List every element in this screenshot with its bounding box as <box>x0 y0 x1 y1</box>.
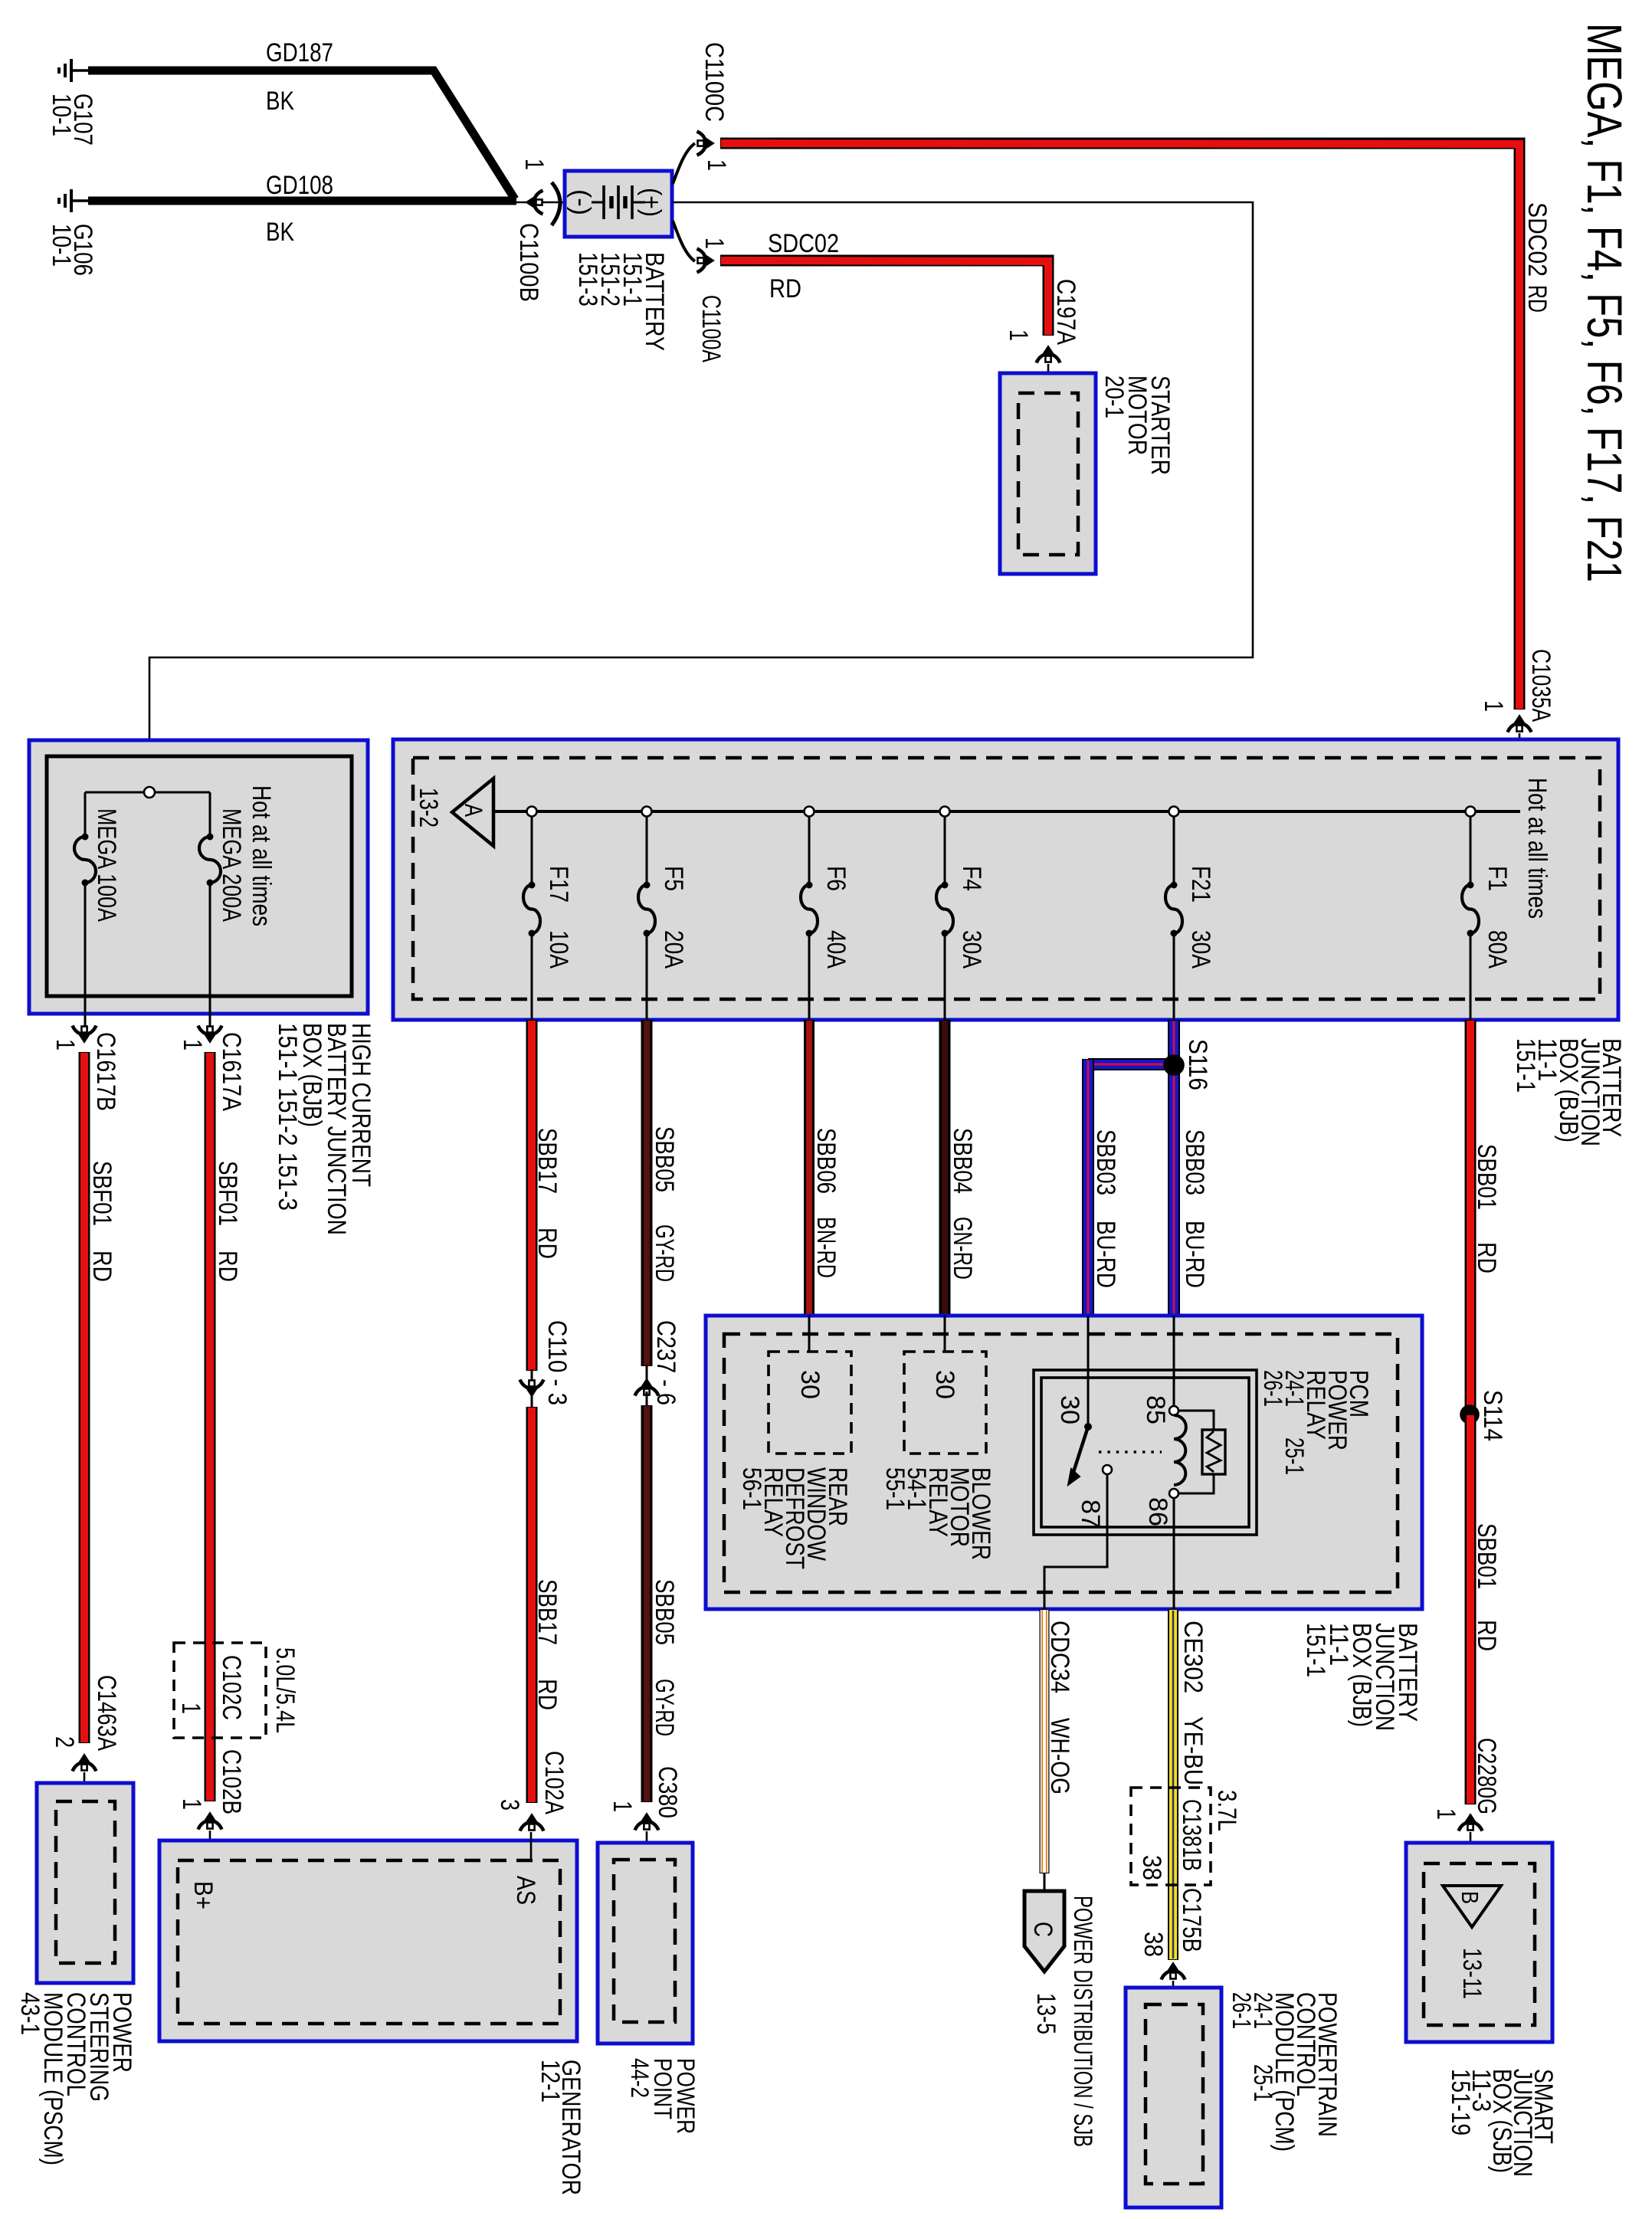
svg-text:BU-RD: BU-RD <box>1091 1221 1120 1288</box>
svg-text:30: 30 <box>1055 1395 1084 1424</box>
svg-text:GY-RD: GY-RD <box>650 1224 679 1282</box>
svg-text:10-1: 10-1 <box>47 93 76 136</box>
svg-text:26-1: 26-1 <box>1227 1992 1256 2029</box>
svg-text:C102B: C102B <box>217 1749 246 1814</box>
svg-text:GY-RD: GY-RD <box>650 1679 679 1736</box>
PCM power relay outer box <box>1034 1370 1257 1535</box>
svg-text:1: 1 <box>520 159 549 170</box>
wire SBB05 GY-RD lower <box>641 1405 653 1802</box>
wire SBF01 RD right <box>205 1052 216 1801</box>
junction circle <box>144 787 155 798</box>
high current BJB box <box>29 740 368 1014</box>
svg-text:1: 1 <box>1479 700 1508 712</box>
svg-text:BN-RD: BN-RD <box>811 1217 841 1278</box>
svg-text:C2280G: C2280G <box>1472 1738 1501 1814</box>
svg-text:55-1: 55-1 <box>880 1467 910 1510</box>
relay pin 87 <box>1103 1465 1112 1474</box>
wire SBB17 RD upper <box>526 1020 538 1371</box>
svg-text:F6: F6 <box>821 866 851 891</box>
svg-text:151-1: 151-1 <box>1511 1038 1540 1093</box>
svg-text:F5: F5 <box>659 866 688 891</box>
wire F1 tap <box>1470 811 1472 885</box>
wire SDC02 RD top <box>720 143 1519 710</box>
svg-text:CE302: CE302 <box>1178 1621 1208 1693</box>
connector C380 arrow <box>635 1813 659 1831</box>
connector C1463A arrow <box>73 1754 97 1772</box>
bracket at battery left <box>552 182 560 225</box>
svg-text:BU-RD: BU-RD <box>1180 1221 1209 1288</box>
fuse F5 <box>638 885 655 933</box>
fuse F6 <box>801 885 818 933</box>
bus tap circle F4 <box>940 807 950 817</box>
svg-text:SBB05: SBB05 <box>650 1579 679 1645</box>
svg-text:1: 1 <box>1004 329 1033 341</box>
connector C1617A arrow <box>198 1026 222 1044</box>
svg-text:RD: RD <box>533 1679 562 1710</box>
wire SBB03 BU-RD branch <box>1088 1058 1174 1070</box>
svg-text:S116: S116 <box>1183 1039 1212 1090</box>
wire C197A into starter <box>1047 364 1050 395</box>
wire SBB06 BN-RD <box>804 1020 815 1316</box>
svg-text:F4: F4 <box>957 866 986 891</box>
wire C237-6 stub lower <box>646 1391 648 1406</box>
wire into connector C <box>1044 1873 1046 1891</box>
wire 86 to box bottom <box>1173 1498 1175 1609</box>
fuse MEGA 200A <box>199 837 221 883</box>
battery split brackets <box>673 143 695 184</box>
svg-text:C1617A: C1617A <box>217 1032 246 1111</box>
svg-text:A: A <box>460 804 487 818</box>
wire F6 tap <box>808 811 811 885</box>
svg-text:F1: F1 <box>1483 866 1512 891</box>
junction S116 <box>1165 1056 1184 1075</box>
svg-text:B: B <box>1457 1891 1483 1904</box>
svg-text:GD108: GD108 <box>266 171 333 200</box>
svg-text:(-): (-) <box>566 189 595 215</box>
svg-text:RD: RD <box>213 1250 242 1282</box>
wire SBB17 RD lower <box>526 1407 538 1803</box>
connector C237-6 arrow <box>635 1378 659 1396</box>
wire F17 to box edge <box>531 933 533 1020</box>
connector square 30 blower <box>904 1352 986 1454</box>
wire left MEGA branch <box>84 792 87 837</box>
svg-text:MEGA 200A: MEGA 200A <box>217 808 246 922</box>
wire C110-3 stub upper <box>531 1369 533 1384</box>
battery junction box (BJB) <box>393 739 1618 1020</box>
svg-text:10A: 10A <box>544 930 573 969</box>
wire F21 tap <box>1173 811 1175 885</box>
wire C380 into power point <box>646 1831 648 1860</box>
connector C102B arrow <box>198 1812 222 1830</box>
svg-text:C197A: C197A <box>1051 279 1080 345</box>
relay pin 85 node <box>1169 1406 1178 1415</box>
wire SDC02 RD to starter <box>720 261 1048 336</box>
wire F4 tap <box>944 811 946 885</box>
svg-text:30A: 30A <box>957 930 986 969</box>
svg-text:30A: 30A <box>1186 930 1215 969</box>
svg-text:1: 1 <box>176 1703 205 1714</box>
fuse MEGA 100A <box>74 837 96 883</box>
svg-text:5.0L/5.4L: 5.0L/5.4L <box>270 1647 300 1733</box>
connector C197A arrow <box>1037 346 1060 363</box>
svg-text:85: 85 <box>1141 1395 1170 1424</box>
generator box <box>159 1840 577 2041</box>
svg-text:MEGA, F1, F4, F5, F6, F17, F21: MEGA, F1, F4, F5, F6, F17, F21 <box>1577 23 1632 582</box>
svg-text:SBB01: SBB01 <box>1472 1523 1501 1589</box>
svg-text:F17: F17 <box>544 866 573 903</box>
wire battery to BJB feed <box>149 202 1253 788</box>
smart junction box <box>1406 1843 1552 2042</box>
svg-text:87: 87 <box>1076 1500 1105 1529</box>
wire into defrost relay <box>808 1316 811 1352</box>
svg-text:SBB03: SBB03 <box>1180 1129 1209 1195</box>
svg-text:GN-RD: GN-RD <box>948 1217 977 1280</box>
svg-text:44-2: 44-2 <box>626 2058 654 2098</box>
svg-text:SBB17: SBB17 <box>533 1579 562 1645</box>
relay switch blade <box>1073 1427 1088 1472</box>
wire SBB03 to switch 30 <box>1087 1316 1090 1425</box>
svg-text:B+: B+ <box>188 1881 218 1909</box>
svg-text:C1463A: C1463A <box>92 1675 121 1751</box>
wire C1463A into PSCM <box>84 1772 86 1801</box>
battery box <box>565 171 672 237</box>
svg-text:3: 3 <box>495 1799 524 1811</box>
svg-text:40A: 40A <box>821 930 851 969</box>
svg-text:SBB06: SBB06 <box>811 1128 841 1194</box>
wire SBB05 GY-RD upper <box>641 1020 653 1366</box>
connector C2280G arrow <box>1459 1814 1483 1831</box>
svg-text:C: C <box>1028 1922 1057 1937</box>
svg-text:RD: RD <box>533 1227 562 1259</box>
fuse F1 <box>1462 885 1479 933</box>
wire GD108 BK thick <box>88 197 516 205</box>
svg-text:YE-BU: YE-BU <box>1178 1716 1208 1785</box>
wire F1 to box edge <box>1470 933 1472 1020</box>
svg-text:F21: F21 <box>1186 866 1215 903</box>
starter motor box <box>1000 373 1096 574</box>
svg-text:POWER DISTRIBUTION / SJB: POWER DISTRIBUTION / SJB <box>1068 1896 1097 2147</box>
svg-text:MEGA 100A: MEGA 100A <box>92 808 121 922</box>
ground G106 <box>59 189 88 212</box>
connector C1100C arrow <box>697 132 715 156</box>
connector C175B arrow <box>1162 1962 1185 1980</box>
svg-text:1: 1 <box>1431 1808 1460 1820</box>
svg-text:25-1: 25-1 <box>1248 2064 1277 2102</box>
svg-text:C102A: C102A <box>539 1751 569 1814</box>
svg-text:2: 2 <box>50 1736 79 1748</box>
wire C2280G into SJB <box>1470 1832 1472 1886</box>
high current BJB inner box <box>47 756 352 996</box>
wire C175B into PCM <box>1172 1981 1175 2004</box>
svg-text:38: 38 <box>1139 1932 1168 1957</box>
svg-text:C1035A: C1035A <box>1526 649 1555 722</box>
svg-text:56-1: 56-1 <box>737 1467 766 1510</box>
connector C110-3 arrow <box>520 1380 544 1398</box>
svg-text:C1100C: C1100C <box>700 42 729 122</box>
wire C110-3 stub lower <box>531 1395 533 1407</box>
bus tap circle F1 <box>1466 807 1476 817</box>
PCM box <box>1126 1988 1221 2208</box>
svg-text:13-5: 13-5 <box>1031 1993 1060 2034</box>
svg-text:(+): (+) <box>637 188 666 217</box>
svg-text:25-1: 25-1 <box>1280 1437 1309 1475</box>
svg-text:13-11: 13-11 <box>1457 1948 1486 1999</box>
svg-text:C1100B: C1100B <box>514 223 543 302</box>
svg-text:1: 1 <box>700 238 729 249</box>
svg-text:C237 - 6: C237 - 6 <box>651 1320 680 1405</box>
wire SBB01 RD lower <box>1465 1414 1477 1804</box>
svg-text:C380: C380 <box>653 1766 682 1818</box>
wire SBB03 BU-RD main <box>1168 1020 1180 1316</box>
ground G107 <box>59 59 88 82</box>
connector C1100B arrow <box>526 191 543 215</box>
svg-text:151-19: 151-19 <box>1446 2069 1475 2135</box>
wire CDC34 WH-OG <box>1040 1609 1050 1873</box>
svg-text:Hot at all times: Hot at all times <box>247 785 276 926</box>
svg-text:C1100A: C1100A <box>697 295 726 362</box>
fuse F17 <box>523 885 540 933</box>
svg-text:SBB01: SBB01 <box>1472 1144 1501 1210</box>
svg-text:38: 38 <box>1137 1855 1166 1880</box>
wire SBB03 BU-RD branch vertical <box>1082 1059 1094 1316</box>
wire GD187 BK thick <box>88 70 515 199</box>
off-page connector C <box>1024 1891 1064 1972</box>
wire below MEGA 100A <box>84 883 87 1027</box>
wire C1035A into BJB <box>1519 733 1521 811</box>
relay actuation dotted line <box>1099 1450 1162 1453</box>
wire F5 to box edge <box>646 933 648 1020</box>
svg-text:C175B: C175B <box>1177 1888 1206 1952</box>
bus tap circle F6 <box>805 807 815 817</box>
svg-text:86: 86 <box>1143 1497 1172 1526</box>
connector square 30 rear defrost <box>769 1352 851 1454</box>
wire SBF01 RD left <box>79 1052 90 1743</box>
wire right MEGA branch <box>209 792 211 837</box>
svg-text:151-1 151-2 151-3: 151-1 151-2 151-3 <box>273 1023 302 1211</box>
svg-text:1: 1 <box>702 159 731 171</box>
svg-text:151-3: 151-3 <box>573 252 602 306</box>
wire C237-6 stub upper <box>646 1365 648 1380</box>
connector box C102C <box>174 1643 266 1738</box>
connector C1617B arrow <box>73 1026 97 1044</box>
svg-text:SBB17: SBB17 <box>533 1128 562 1194</box>
triangle connector A <box>452 778 493 846</box>
wire C102A into generator <box>530 1832 533 1860</box>
fuse F21 <box>1165 885 1182 933</box>
wire into blower relay <box>944 1316 946 1352</box>
wire F5 tap <box>646 811 648 885</box>
svg-text:C1617B: C1617B <box>91 1032 120 1111</box>
wire F6 to box edge <box>808 933 811 1020</box>
wire CE302 YE-BU <box>1168 1609 1178 1960</box>
svg-text:30: 30 <box>930 1370 959 1399</box>
svg-text:26-1: 26-1 <box>1258 1370 1287 1407</box>
svg-text:20A: 20A <box>659 930 688 969</box>
wire SBB03 to coil 85 <box>1173 1316 1175 1406</box>
bus tap circle F21 <box>1169 807 1179 817</box>
bus tap circle F17 <box>527 807 537 817</box>
svg-text:13-2: 13-2 <box>414 788 443 828</box>
relay switch pivot <box>1084 1423 1092 1431</box>
svg-text:AS: AS <box>511 1876 540 1905</box>
svg-text:C102C: C102C <box>217 1655 246 1720</box>
connector C1035A arrow <box>1508 715 1532 733</box>
svg-text:SBF01: SBF01 <box>87 1161 116 1226</box>
svg-text:SDC02: SDC02 <box>1523 202 1552 277</box>
svg-text:3.7L: 3.7L <box>1212 1790 1241 1831</box>
svg-text:S114: S114 <box>1478 1390 1507 1441</box>
svg-text:C110 - 3: C110 - 3 <box>542 1320 572 1405</box>
wire into battery <box>515 202 565 204</box>
battery junction box (relays) <box>706 1316 1422 1609</box>
relay coil <box>1174 1415 1186 1485</box>
wire F4 to box edge <box>944 933 946 1020</box>
battery plates <box>592 185 645 219</box>
svg-text:151-1: 151-1 <box>1301 1623 1330 1677</box>
relay resistor <box>1178 1411 1214 1493</box>
svg-text:WH-OG: WH-OG <box>1045 1718 1074 1795</box>
junction S114 <box>1461 1406 1479 1424</box>
wire SBB01 RD upper <box>1465 1020 1477 1414</box>
wire SBB04 GN-RD <box>939 1020 951 1316</box>
svg-text:Hot at all times: Hot at all times <box>1523 778 1552 919</box>
svg-text:1: 1 <box>608 1801 637 1812</box>
svg-text:CDC34: CDC34 <box>1045 1621 1074 1693</box>
svg-text:80A: 80A <box>1483 930 1512 969</box>
relay pin 86 node <box>1169 1489 1178 1498</box>
connector C1100A arrow <box>697 249 715 273</box>
svg-text:RD: RD <box>87 1250 116 1282</box>
svg-text:30: 30 <box>795 1370 824 1399</box>
wire F21 to box edge <box>1173 933 1175 1020</box>
bus hot at all times <box>494 810 1520 813</box>
wire C102B into generator <box>209 1831 211 1860</box>
svg-text:RD: RD <box>1472 1242 1501 1273</box>
svg-text:RD: RD <box>1472 1620 1501 1651</box>
svg-text:10-1: 10-1 <box>47 224 76 267</box>
svg-text:C1381B: C1381B <box>1177 1799 1206 1871</box>
svg-text:BK: BK <box>266 218 294 247</box>
triangle connector B <box>1443 1886 1501 1927</box>
wire below MEGA 200A <box>209 883 211 1027</box>
wire feed inside HC BJB <box>85 792 210 794</box>
connector box C1381B <box>1131 1788 1211 1885</box>
svg-text:SBB03: SBB03 <box>1091 1129 1120 1195</box>
svg-text:SBB05: SBB05 <box>650 1126 679 1192</box>
svg-text:BK: BK <box>266 87 294 116</box>
svg-text:SBB04: SBB04 <box>948 1128 977 1194</box>
wire F17 tap <box>531 811 533 885</box>
svg-text:43-1: 43-1 <box>15 1992 44 2035</box>
svg-text:RD: RD <box>1523 285 1552 313</box>
svg-text:RD: RD <box>769 274 801 303</box>
bus tap circle F5 <box>642 807 652 817</box>
svg-text:GD187: GD187 <box>266 38 333 67</box>
wire 87 to box bottom <box>1044 1474 1107 1609</box>
svg-text:SDC02: SDC02 <box>768 229 839 258</box>
connector C102A arrow <box>520 1814 544 1831</box>
power point box <box>598 1843 693 2044</box>
svg-text:1: 1 <box>177 1798 206 1810</box>
PSCM box <box>37 1783 133 1983</box>
svg-text:12-1: 12-1 <box>536 2060 565 2103</box>
fuse F4 <box>936 885 953 933</box>
svg-text:1: 1 <box>178 1039 207 1051</box>
svg-text:1: 1 <box>51 1039 80 1051</box>
svg-text:SBF01: SBF01 <box>213 1161 242 1226</box>
svg-text:20-1: 20-1 <box>1100 375 1129 418</box>
